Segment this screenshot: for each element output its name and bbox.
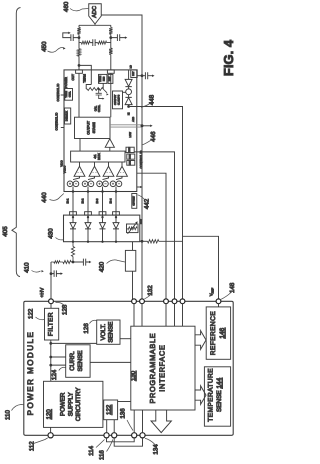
svg-text:DET: DET [132,71,135,76]
node: left rail cap tap [78,36,81,39]
capacitor: differential cap [90,39,98,46]
wire: rails into IC pins [79,55,111,70]
diode: clamp upper [125,79,132,86]
svg-text:REFERENCE: REFERENCE [210,311,217,355]
svg-text:A&B: A&B [132,117,135,122]
svg-text:VREF: VREF [209,288,215,297]
svg-text:136: 136 [119,408,126,419]
resistor: filter right rail top [109,28,112,35]
wire: control io stub 2 [61,127,65,129]
sense block A (top) [99,74,107,83]
resistor: series R right of diff cap [98,41,111,44]
terminal 116 [112,433,117,438]
pin stub arrow (offset out) [137,186,141,188]
node: HV cap tap [50,272,53,275]
wires: battery to terminals [107,420,115,433]
wire: ctrl line 1 to bus [134,152,174,299]
channel 3: wire to diode bridge [102,192,104,216]
terminal 132a [132,299,137,304]
svg-text:LT&U: LT&U [128,147,131,153]
wire: right rail mid [110,34,112,48]
wire: clamp LO from top edge [128,70,130,80]
channel 4: output node [115,187,117,192]
wire: output stage to mux [79,139,81,152]
resistor: bleed riser ch1 [71,242,74,262]
svg-text:116: 116 [99,450,106,460]
wire: cal left elbow [86,85,91,90]
offset block [132,194,137,209]
channel 1: mux feed wire [79,162,81,166]
svg-text:148: 148 [229,282,236,293]
svg-text:114: 114 [88,445,95,455]
svg-text:TERM: TERM [65,91,68,98]
volt sense block [97,320,120,344]
wire: OUT rail to output stage [78,73,80,117]
channel 2: driver pair [88,176,95,179]
svg-text:128: 128 [61,304,68,315]
svg-text:OUT: OUT [71,74,75,81]
node: cal mosfet drain [98,88,100,90]
terminal 132b [140,299,145,304]
svg-text:SUPPLY: SUPPLY [67,392,74,416]
block arrow: downward [151,410,171,433]
external link 114-136 [107,438,135,442]
svg-text:+HV: +HV [39,287,45,298]
svg-text:130: 130 [130,370,137,381]
channel 1: driver pair [73,176,80,179]
ctrl box 3 [127,161,135,166]
block arrow: to temp sense [195,386,206,405]
wire: TERM rail inside to output stage [110,73,112,117]
wire: to volt sense [51,342,97,344]
wire: ctrl line 2 to bus [137,173,166,299]
wire: sense box to v0 node [137,75,142,77]
diode ch2 [87,216,89,218]
channel 4: wire to diode bridge [115,192,117,216]
ctrl box 1 (right edge) [126,147,134,152]
transistor: cal mosfet [96,89,103,99]
svg-text:405: 405 [2,226,9,237]
svg-text:SENSE 144: SENSE 144 [216,377,223,412]
svg-text:ADC: ADC [92,6,98,18]
svg-text:POWER: POWER [60,392,67,416]
terminal 134 [140,433,145,438]
channel 2: amp triangle [89,166,100,176]
notch ch4 [113,212,120,215]
terminal 132c [164,299,169,304]
wire: left rail mid [78,34,80,49]
svg-text:110: 110 [5,410,12,420]
terminal 114 [104,433,109,438]
svg-text:IN-2: IN-2 [82,198,85,203]
wire: vref terminal to reference [218,304,220,307]
svg-text:124: 124 [51,369,58,380]
output stage block [75,117,111,138]
output clamps block [113,91,123,109]
svg-text:INTERFACE: INTERFACE [158,344,167,391]
node: varistor/limiter junction on v0 [141,240,144,243]
svg-text:LT&B: LT&B [129,160,132,166]
curr sense block [66,345,90,378]
svg-text:CONTROL IO: CONTROL IO [56,83,60,102]
resistor: to control bus [142,240,148,242]
channel 3: driver pair [103,176,109,179]
svg-text:BT&B: BT&B [129,153,132,159]
resistor: cal termination [87,88,103,91]
terminal vref [216,299,221,304]
capacitor: HV decouple right w arrow [73,259,90,266]
svg-text:CTRL: CTRL [68,91,71,98]
svg-text:FILTER: FILTER [47,312,54,336]
terminal 112 [48,433,53,438]
resistor: left rail lower [77,49,80,57]
wire: vref route from clamp rail [183,236,219,299]
resistor: right rail lower [109,48,112,54]
notch ch3 [99,212,106,215]
wire: filter down to supply [50,340,52,381]
diode ch4 [115,216,117,218]
node: clamp HI junction [128,105,130,107]
channel 3: output node [102,187,104,192]
node circle: clamp mid [126,89,132,95]
power supply circuitry block [44,381,103,427]
svg-text:POWER MODULE: POWER MODULE [26,331,35,416]
channel 2: wire to diode bridge [87,192,89,216]
svg-text:122: 122 [106,404,113,415]
wire: HV terminal to filter [50,304,52,309]
svg-text:CURR.: CURR. [69,351,76,371]
svg-text:CONTROL IO: CONTROL IO [139,150,143,169]
control block: term ctrl [65,89,73,101]
wire: TERM jog into cal network [79,65,91,84]
svg-text:IN-1: IN-1 [67,198,70,203]
demux block [65,108,71,124]
channel 3: amp triangle [103,166,114,176]
pin notch OUT [76,70,83,73]
svg-text:SENSE: SENSE [108,322,115,343]
wire: volt sense to prog if [120,338,131,340]
svg-text:CIRCUITRY: CIRCUITRY [75,388,82,422]
wire: 420 to connector [132,271,134,299]
wire: ADC input tee [79,24,111,28]
wires: control triple into prog if [166,304,183,327]
brace: probe assembly 405 [12,8,21,277]
wire: supply to terminal 112 [50,427,52,432]
temperature sense block 144 [204,367,230,426]
sense block B (top) [108,74,113,83]
channel 1: output node [72,187,74,192]
channel 4: amp triangle [117,166,128,176]
svg-text:146: 146 [219,327,226,338]
svg-text:CONTROL IO: CONTROL IO [54,112,58,131]
svg-text:112: 112 [29,441,36,451]
svg-text:420: 420 [98,261,105,272]
wire: control io stub 1 [61,94,65,96]
svg-text:442: 442 [143,198,150,209]
switch arm: cal [103,89,107,93]
wire: 430 to 420 [132,242,134,251]
notch ch2 [85,212,92,215]
svg-text:410: 410 [24,262,31,273]
svg-text:122: 122 [28,308,35,319]
pin notch TERM [107,70,114,73]
wire: clamp HI line to right rail [129,107,183,300]
diode ch1 [72,216,74,218]
svg-text:450: 450 [41,41,48,52]
ADC 460 [89,4,102,24]
programmable interface block 130 [131,326,195,410]
wires: connector pair into prog if [134,304,142,327]
terminal 136 [132,433,137,438]
svg-text:IN-3: IN-3 [96,198,99,203]
svg-text:VOLT.: VOLT. [100,323,107,340]
diode array block 430 [64,215,140,242]
wire: ADC output to bus v0 [101,15,142,299]
node: OUT/TERM jog [78,64,81,67]
svg-text:LOW: LOW [129,131,132,137]
wires: A/B pair out of output stage [110,125,142,127]
svg-text:430: 430 [47,228,54,239]
svg-text:IN-4: IN-4 [110,198,113,203]
external link 116-134 [114,438,142,446]
capacitor: right shunt cap with HV arrow [111,34,126,41]
svg-text:LO: LO [130,65,133,68]
wire: curr sense to prog if [90,361,131,363]
resistor: HV feed small [51,261,60,264]
channel 2: output node [87,187,89,192]
svg-text:126: 126 [83,323,90,334]
svg-text:CTRL: CTRL [97,104,101,112]
channel 4: driver pair [116,176,122,179]
block arrow: to reference [195,331,206,350]
wire: clamps block to mid node [123,91,126,93]
ctrl box 2 [127,154,135,159]
wire: sense block A to cal resistor [102,83,104,89]
wire: battery to prog if [118,401,131,403]
capacitor: left shunt cap with HV arrow [63,33,79,41]
wires: to curr sense [51,357,66,365]
channel 1: amp triangle [74,166,85,176]
mux block 4:1 [71,151,125,162]
buffer amp (rx) [105,139,114,148]
svg-text:120: 120 [45,409,52,420]
varistor [127,224,139,233]
svg-text:460: 460 [63,1,70,12]
filter block 122 [45,308,59,340]
svg-text:SENSE: SENSE [77,351,84,372]
battery block 122b [104,400,118,420]
terminal +HV [49,299,54,304]
reference block 146 [206,307,230,359]
svg-text:HI: HI [127,112,130,115]
T/R limiter block 420 [125,250,135,271]
svg-text:132: 132 [147,285,154,296]
resistor: HV feed main [60,260,73,263]
svg-text:OUTPUT: OUTPUT [86,121,90,135]
node: right rail cap tap [109,36,112,39]
svg-text:RES: RES [102,76,105,81]
svg-text:TERM: TERM [82,74,86,83]
diode: clamp lower [125,97,132,104]
svg-text:PROGRAMMABLE: PROGRAMMABLE [148,333,157,404]
IC transmit/receive chip 440 [64,70,137,192]
svg-text:DEMUX: DEMUX [65,111,69,121]
channel 1: wire to diode bridge [72,192,74,216]
wires: prog if to bottom terminals [134,410,142,433]
notch ch1 [70,212,77,215]
terminal 132d [172,299,177,304]
diode ch3 [101,216,103,218]
node: v0 cal tap [141,74,144,77]
svg-text:MOV: MOV [140,218,143,224]
svg-text:FIG. 4: FIG. 4 [221,39,236,76]
svg-text:MUX: MUX [97,153,101,160]
svg-text:TERM: TERM [99,76,102,82]
resistor: filter left rail top [77,28,80,35]
svg-text:VICO: VICO [60,160,63,166]
svg-text:CLAMPS: CLAMPS [118,94,121,105]
svg-text:POWER: POWER [64,77,68,88]
capacitor: HV decouple left w arrow [51,270,61,277]
svg-text:440: 440 [41,192,48,203]
channel 4: mux feed wire [121,162,123,166]
channel 3: mux feed wire [108,162,110,166]
svg-text:TEMPERATURE: TEMPERATURE [208,368,215,422]
svg-text:STAGE: STAGE [92,122,96,134]
channel 2: mux feed wire [94,162,96,166]
capacitor: v0 tap cap with arrow [142,72,153,79]
resistor: series R left of diff cap [79,41,90,44]
system enclosure box 110 [24,301,233,435]
svg-text:VCDO: VCDO [64,166,67,174]
svg-text:134: 134 [152,444,159,455]
terminal 132e [180,299,185,304]
svg-text:OFFSET: OFFSET [132,196,135,206]
top-right sense box [131,70,137,78]
wire: HV corner down [50,262,52,299]
